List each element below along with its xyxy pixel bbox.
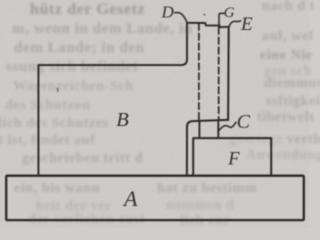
svg-text:G: G — [224, 5, 235, 21]
svg-text:E: E — [240, 14, 253, 35]
leader line to G — [219, 13, 225, 27]
paper background show-through text (faint, blurred) — [30, 1, 145, 19]
die block F (outline) — [193, 138, 271, 175]
svg-text:A: A — [122, 186, 138, 211]
svg-text:D: D — [161, 3, 175, 22]
leader line to C — [219, 122, 236, 130]
sleeve top profile: plateau, step, shelf G, corner E — [187, 23, 229, 27]
svg-text:C: C — [237, 111, 251, 133]
base plate A (outline) — [6, 176, 304, 220]
punch rod C visible below sleeve, left edge — [198, 121, 200, 138]
small stray mark inside column B — [57, 89, 58, 92]
sleeve bottom edge with rounded corner into lower wall — [187, 120, 228, 175]
svg-text:F: F — [227, 150, 240, 170]
ink speck near top step — [204, 14, 206, 16]
hidden punch rod C inside sleeve (dashed), left line — [198, 24, 200, 121]
punch rod C visible below sleeve, right edge — [217, 120, 219, 138]
svg-text:B: B — [116, 109, 129, 131]
hidden punch rod C inside sleeve (dashed), right line — [218, 28, 220, 120]
sleeve right edge (E side) — [227, 27, 230, 120]
frame column B: left edge, top edge, fillet up to sleeve left edge (corner D) — [38, 23, 187, 175]
leader line to E — [229, 21, 241, 27]
leader line to D — [175, 13, 187, 22]
